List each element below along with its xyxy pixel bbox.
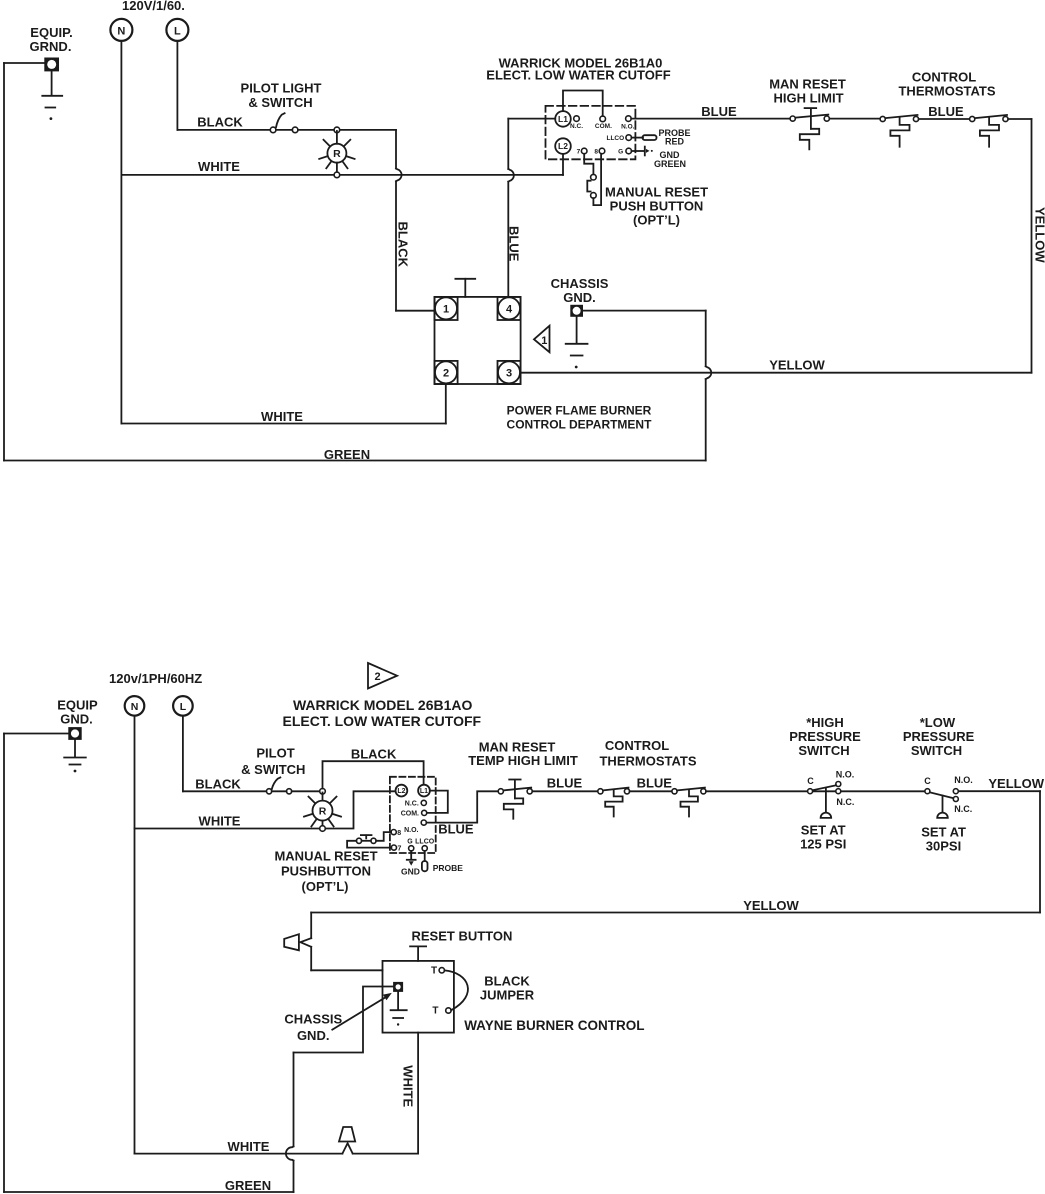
label CONTROL THERMOSTATS bbox=[599, 738, 696, 769]
svg-text:GREEN: GREEN bbox=[654, 159, 686, 169]
terminal G bbox=[407, 839, 414, 851]
wire N vertical bbox=[120, 41, 122, 424]
junction node lamp top bbox=[320, 789, 326, 795]
terminal COM. bbox=[401, 810, 427, 817]
svg-text:7: 7 bbox=[577, 149, 581, 156]
svg-text:BLUE: BLUE bbox=[928, 104, 964, 119]
svg-text:PROBE: PROBE bbox=[433, 863, 464, 873]
svg-text:BLACK: BLACK bbox=[484, 974, 530, 989]
control thermostat switch S6 bbox=[672, 788, 706, 817]
svg-text:N.O.: N.O. bbox=[404, 827, 418, 834]
label PILOT & SWITCH bbox=[241, 746, 305, 778]
probe lead and tip bbox=[632, 135, 657, 140]
svg-text:YELLOW: YELLOW bbox=[1032, 207, 1045, 263]
svg-text:COM.: COM. bbox=[595, 123, 612, 130]
svg-text:GREEN: GREEN bbox=[324, 447, 370, 462]
terminal L bbox=[173, 696, 193, 716]
label MAN RESET HIGH LIMIT bbox=[769, 77, 846, 106]
wire terminal 2 riser bbox=[445, 384, 447, 424]
chassis ground terminal in box bbox=[394, 982, 403, 991]
wire low pressure to right corner bbox=[958, 790, 1040, 792]
svg-text:WHITE: WHITE bbox=[401, 1065, 416, 1107]
wire left edge vertical bbox=[3, 63, 5, 461]
svg-text:R: R bbox=[319, 805, 327, 817]
svg-text:8: 8 bbox=[397, 830, 401, 837]
svg-text:CHASSIS: CHASSIS bbox=[284, 1012, 342, 1027]
svg-text:MANUAL RESET: MANUAL RESET bbox=[605, 185, 708, 200]
terminal 8 bbox=[391, 830, 401, 837]
svg-text:SWITCH: SWITCH bbox=[798, 743, 849, 758]
wire switch to junction bbox=[292, 790, 323, 792]
wire thermostat 2 to corner bbox=[1008, 118, 1031, 120]
svg-text:CONTROL DEPARTMENT: CONTROL DEPARTMENT bbox=[507, 418, 653, 432]
note triangle 2 bbox=[368, 663, 397, 689]
wire white lower run bbox=[121, 423, 445, 425]
terminal T lower bbox=[432, 1006, 451, 1017]
wire L drop bbox=[182, 716, 184, 792]
high pressure switch S7 bbox=[807, 770, 854, 818]
svg-text:L: L bbox=[174, 25, 181, 37]
wire thermostat 2 to high pressure switch bbox=[706, 790, 925, 792]
wire yellow drop with horn tap bbox=[300, 913, 311, 971]
terminal 7 bbox=[391, 845, 401, 852]
terminal L bbox=[166, 19, 188, 41]
relay terminal L1 bbox=[555, 111, 571, 127]
svg-text:EQUIP: EQUIP bbox=[57, 698, 98, 713]
relay terminal L2 bbox=[555, 138, 571, 154]
wire N.O. to temp high limit bbox=[426, 791, 498, 822]
wire L to pilot switch bbox=[183, 790, 267, 792]
man reset temp high limit switch S4 bbox=[498, 780, 532, 819]
wire L to pilot switch bbox=[177, 129, 270, 131]
svg-text:7: 7 bbox=[398, 845, 402, 852]
terminal T upper bbox=[431, 966, 444, 977]
svg-text:TEMP HIGH LIMIT: TEMP HIGH LIMIT bbox=[468, 753, 578, 768]
wire jumper L1 to COM bbox=[563, 91, 603, 116]
svg-text:2: 2 bbox=[374, 671, 380, 683]
pilot lamp R bbox=[304, 793, 341, 828]
label SET AT 125 PSI bbox=[800, 823, 846, 852]
label MAN RESET TEMP HIGH LIMIT bbox=[468, 740, 578, 769]
svg-text:*HIGH: *HIGH bbox=[806, 715, 844, 730]
flame sensor bell bbox=[339, 1127, 355, 1142]
junction node lamp bottom bbox=[334, 172, 340, 178]
svg-text:(OPT’L): (OPT’L) bbox=[633, 213, 680, 228]
terminal LLCO bbox=[606, 135, 631, 142]
svg-text:GND.: GND. bbox=[297, 1028, 330, 1043]
relay terminal L2 bbox=[396, 785, 408, 797]
chassis tab on box bbox=[455, 279, 475, 297]
wire white branch N to L2 bbox=[121, 174, 563, 176]
note triangle 1 bbox=[534, 326, 550, 353]
svg-text:LLCO: LLCO bbox=[606, 135, 624, 142]
svg-text:3: 3 bbox=[506, 368, 512, 380]
svg-text:T: T bbox=[432, 1006, 438, 1017]
svg-text:WHITE: WHITE bbox=[198, 159, 240, 174]
svg-text:ELECT. LOW WATER CUTOFF: ELECT. LOW WATER CUTOFF bbox=[283, 713, 482, 729]
svg-text:BLACK: BLACK bbox=[351, 747, 397, 762]
svg-text:HIGH LIMIT: HIGH LIMIT bbox=[773, 91, 843, 106]
label GND GREEN bbox=[654, 150, 686, 169]
equip ground terminal bbox=[69, 728, 81, 740]
svg-text:RED: RED bbox=[665, 137, 685, 147]
terminal N.C. bbox=[570, 116, 583, 130]
svg-text:2: 2 bbox=[443, 368, 449, 380]
wire black bridge to L1 bbox=[323, 761, 424, 788]
wayne burner control box U2 bbox=[383, 961, 454, 1033]
manual reset pushbutton PB1 bbox=[584, 154, 601, 205]
svg-text:120v/1PH/60HZ: 120v/1PH/60HZ bbox=[109, 671, 202, 686]
svg-text:N.O.: N.O. bbox=[621, 123, 635, 130]
svg-text:YELLOW: YELLOW bbox=[743, 898, 799, 913]
svg-text:MAN RESET: MAN RESET bbox=[769, 77, 846, 92]
black jumper arc bbox=[445, 970, 468, 1010]
wire L2 drop bbox=[562, 154, 564, 175]
svg-text:WHITE: WHITE bbox=[199, 814, 241, 829]
terminal 1 bbox=[435, 297, 458, 320]
label MANUAL RESET PUSHBUTTON (OPT'L) bbox=[274, 849, 377, 895]
svg-text:BLUE: BLUE bbox=[438, 822, 474, 837]
wire switch to corner bbox=[298, 129, 396, 131]
terminal 7 bbox=[577, 148, 587, 155]
svg-text:POWER FLAME BURNER: POWER FLAME BURNER bbox=[507, 404, 652, 418]
chassis ground symbol bbox=[391, 991, 407, 1025]
wire high limit to thermostat 1 bbox=[829, 118, 880, 120]
wire left edge vertical bbox=[3, 734, 5, 1193]
svg-text:PUSH BUTTON: PUSH BUTTON bbox=[610, 199, 704, 214]
wire thermostat 1 to 2 bbox=[630, 790, 672, 792]
svg-text:SWITCH: SWITCH bbox=[911, 743, 962, 758]
terminal G bbox=[618, 148, 631, 155]
wire yellow return run bbox=[521, 372, 1032, 374]
svg-text:PRESSURE: PRESSURE bbox=[903, 729, 975, 744]
terminal COM. bbox=[595, 116, 612, 130]
label *HIGH PRESSURE SWITCH bbox=[789, 715, 861, 758]
svg-text:GREEN: GREEN bbox=[225, 1178, 271, 1193]
svg-text:CHASSIS: CHASSIS bbox=[551, 276, 609, 291]
svg-text:GND.: GND. bbox=[563, 290, 596, 305]
svg-text:L1: L1 bbox=[420, 788, 428, 795]
wire white riser to box bbox=[417, 1033, 419, 1154]
svg-text:PUSHBUTTON: PUSHBUTTON bbox=[281, 864, 371, 879]
svg-text:COM.: COM. bbox=[401, 811, 419, 818]
svg-text:N.O.: N.O. bbox=[836, 770, 855, 780]
svg-text:N.C.: N.C. bbox=[836, 797, 854, 807]
control thermostat switch S2 bbox=[880, 115, 919, 147]
svg-text:YELLOW: YELLOW bbox=[988, 776, 1044, 791]
svg-text:WHITE: WHITE bbox=[228, 1139, 270, 1154]
svg-text:30PSI: 30PSI bbox=[926, 839, 961, 854]
label SET AT 30PSI bbox=[921, 825, 966, 854]
wire GREEN run bbox=[4, 460, 706, 462]
svg-text:(OPT’L): (OPT’L) bbox=[302, 879, 349, 894]
svg-text:N.C.: N.C. bbox=[954, 804, 972, 814]
svg-text:G: G bbox=[618, 149, 623, 156]
label BLACK JUMPER bbox=[480, 974, 535, 1003]
terminal N.O. bbox=[621, 116, 635, 131]
wire L drop bbox=[176, 41, 178, 130]
wire into burner control box bbox=[311, 969, 382, 971]
label PROBE RED bbox=[658, 128, 690, 147]
label POWER FLAME BURNER CONTROL DEPARTMENT bbox=[507, 404, 653, 432]
wire equip gnd to left margin bbox=[4, 733, 69, 735]
svg-text:CONTROL: CONTROL bbox=[912, 70, 976, 85]
svg-text:BLUE: BLUE bbox=[701, 104, 737, 119]
reset button symbol bbox=[410, 946, 426, 961]
svg-text:N.C.: N.C. bbox=[570, 123, 583, 130]
wire yellow right riser bbox=[1031, 119, 1033, 373]
svg-text:PILOT LIGHT: PILOT LIGHT bbox=[241, 81, 322, 96]
svg-text:SET AT: SET AT bbox=[921, 825, 966, 840]
svg-text:GND: GND bbox=[401, 867, 420, 877]
gnd lead and symbol bbox=[632, 147, 653, 156]
probe lead and electrode bbox=[422, 851, 428, 871]
svg-text:& SWITCH: & SWITCH bbox=[241, 762, 305, 777]
wire black vertical with hop over white bbox=[396, 130, 402, 311]
terminal N bbox=[125, 696, 145, 716]
svg-text:PRESSURE: PRESSURE bbox=[789, 729, 861, 744]
wire chassis gnd to green bbox=[286, 987, 394, 1193]
label *LOW PRESSURE SWITCH bbox=[903, 715, 975, 758]
label PILOT LIGHT & SWITCH bbox=[241, 81, 322, 111]
wire vertical to green with hop over yellow bbox=[706, 311, 712, 461]
wire chassis gnd run bbox=[583, 310, 706, 312]
label EQUIP GND. bbox=[57, 698, 98, 727]
terminal LLCO bbox=[415, 839, 435, 851]
svg-text:N: N bbox=[131, 701, 139, 713]
man reset high limit switch S1 bbox=[790, 108, 829, 149]
wire L1 feed from blue riser bbox=[508, 118, 555, 120]
svg-text:WAYNE BURNER CONTROL: WAYNE BURNER CONTROL bbox=[464, 1018, 644, 1033]
svg-text:THERMOSTATS: THERMOSTATS bbox=[898, 84, 995, 99]
svg-text:N: N bbox=[117, 25, 125, 37]
terminal 3 bbox=[498, 361, 521, 384]
svg-text:L1: L1 bbox=[558, 114, 568, 124]
manual reset pushbutton PB2 bbox=[347, 832, 391, 848]
wire jumper L1 to COM bbox=[427, 791, 448, 813]
control thermostat switch S5 bbox=[598, 788, 630, 817]
svg-text:1: 1 bbox=[541, 335, 547, 347]
terminal N bbox=[110, 19, 132, 41]
svg-text:LLCO: LLCO bbox=[415, 839, 435, 846]
wire N.O. to high limit bbox=[631, 118, 790, 120]
svg-text:R: R bbox=[333, 148, 341, 160]
svg-text:THERMOSTATS: THERMOSTATS bbox=[599, 754, 696, 769]
label MANUAL RESET PUSH BUTTON (OPT'L) bbox=[605, 185, 708, 228]
label CHASSIS GND. bbox=[284, 1012, 342, 1044]
terminal N.C. bbox=[405, 800, 427, 807]
pilot lamp R bbox=[319, 131, 354, 174]
Warrick relay dashed enclosure (lower) bbox=[390, 777, 436, 853]
svg-text:T: T bbox=[431, 966, 437, 977]
equip ground terminal bbox=[45, 58, 59, 71]
ground symbol bbox=[64, 739, 86, 772]
relay terminal L1 bbox=[418, 785, 430, 797]
pilot light switch SW1 bbox=[270, 113, 298, 133]
svg-text:GRND.: GRND. bbox=[30, 39, 72, 54]
svg-text:ELECT. LOW WATER CUTOFF: ELECT. LOW WATER CUTOFF bbox=[486, 68, 670, 83]
terminal 8 bbox=[594, 148, 604, 155]
wire white bottom run with sensor tap bbox=[135, 1143, 419, 1153]
svg-text:BLACK: BLACK bbox=[195, 777, 241, 792]
svg-text:L: L bbox=[180, 701, 187, 713]
svg-text:4: 4 bbox=[506, 304, 513, 316]
label WARRICK MODEL 26B1A0 ELECT. LOW WATER CUTOFF bbox=[486, 56, 670, 83]
wire into terminal 1 bbox=[396, 310, 435, 312]
svg-text:*LOW: *LOW bbox=[920, 715, 956, 730]
svg-text:RESET BUTTON: RESET BUTTON bbox=[412, 929, 513, 944]
wire white branch to L2 bbox=[135, 791, 395, 828]
svg-text:GND.: GND. bbox=[60, 712, 93, 727]
svg-text:8: 8 bbox=[594, 149, 598, 156]
pilot switch SW2 bbox=[267, 778, 292, 794]
svg-text:L2: L2 bbox=[558, 141, 568, 151]
svg-text:125 PSI: 125 PSI bbox=[800, 837, 846, 852]
low pressure switch S8 bbox=[924, 775, 973, 818]
burner control box U1 bbox=[435, 297, 521, 384]
svg-text:WHITE: WHITE bbox=[261, 409, 303, 424]
svg-text:L2: L2 bbox=[397, 788, 405, 795]
wire blue riser with hop over white bbox=[508, 119, 514, 297]
chassis gnd leader arrow bbox=[332, 993, 392, 1030]
wire yellow right riser bbox=[1039, 791, 1041, 912]
wire to thermostat 1 bbox=[532, 790, 598, 792]
svg-text:EQUIP.: EQUIP. bbox=[30, 25, 72, 40]
svg-text:CONTROL: CONTROL bbox=[605, 738, 669, 753]
ground symbol bbox=[42, 71, 62, 120]
svg-text:G: G bbox=[407, 839, 413, 846]
svg-text:C: C bbox=[807, 776, 814, 786]
Warrick relay dashed enclosure bbox=[546, 106, 636, 159]
wire equip gnd to left margin bbox=[4, 62, 45, 64]
svg-text:BLUE: BLUE bbox=[507, 226, 522, 262]
wire thermostat 1 to thermostat 2 bbox=[919, 118, 970, 120]
wire GREEN run bbox=[4, 1191, 294, 1193]
svg-text:JUMPER: JUMPER bbox=[480, 988, 535, 1003]
label CHASSIS GND. bbox=[551, 276, 609, 305]
svg-text:120V/1/60.: 120V/1/60. bbox=[122, 0, 185, 13]
chassis ground terminal bbox=[571, 305, 583, 316]
svg-text:N.O.: N.O. bbox=[954, 775, 973, 785]
svg-text:1: 1 bbox=[443, 304, 449, 316]
gnd lead and symbol at G bbox=[407, 851, 416, 866]
svg-text:BLACK: BLACK bbox=[197, 115, 243, 130]
svg-text:N.C.: N.C. bbox=[405, 801, 419, 808]
svg-text:BLACK: BLACK bbox=[396, 222, 411, 268]
svg-text:BLUE: BLUE bbox=[637, 776, 673, 791]
svg-text:SET AT: SET AT bbox=[801, 823, 846, 838]
control thermostat switch S3 bbox=[970, 115, 1009, 147]
terminal 2 bbox=[435, 361, 458, 384]
label WARRICK MODEL 26B1AO ELECT. LOW WATER CUTOFF bbox=[283, 697, 482, 729]
svg-text:WARRICK MODEL 26B1AO: WARRICK MODEL 26B1AO bbox=[293, 697, 473, 713]
terminal 4 bbox=[498, 297, 521, 320]
svg-text:PILOT: PILOT bbox=[256, 746, 294, 761]
junction node lamp top bbox=[334, 127, 340, 133]
svg-text:BLUE: BLUE bbox=[547, 776, 583, 791]
alarm horn bbox=[284, 934, 299, 950]
chassis ground symbol bbox=[566, 316, 588, 368]
junction node lamp bottom bbox=[320, 826, 326, 832]
wire yellow bottom run bbox=[311, 912, 1040, 914]
label EQUIP. GRND. bbox=[30, 25, 73, 54]
svg-text:YELLOW: YELLOW bbox=[769, 358, 825, 373]
terminal N.O. bbox=[404, 820, 426, 834]
label CONTROL THERMOSTATS bbox=[898, 70, 995, 99]
svg-text:MANUAL RESET: MANUAL RESET bbox=[274, 849, 377, 864]
wire N vertical bbox=[134, 716, 136, 1154]
svg-text:& SWITCH: & SWITCH bbox=[248, 95, 312, 110]
svg-text:C: C bbox=[924, 776, 931, 786]
